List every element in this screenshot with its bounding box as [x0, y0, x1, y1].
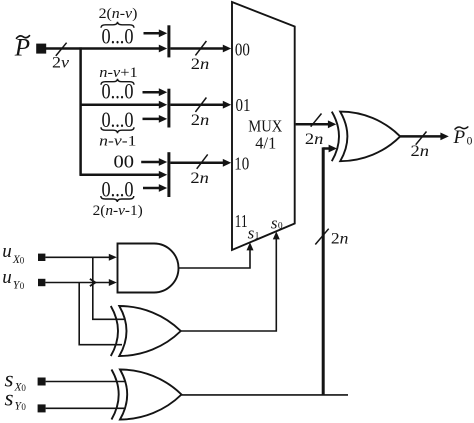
xor gate U4 (s signals) — [112, 370, 182, 420]
svg-text:P: P — [453, 127, 466, 148]
svg-text:2n: 2n — [305, 131, 324, 148]
svg-text:0: 0 — [21, 383, 26, 393]
xor gate U3 (u signals) — [111, 306, 181, 356]
svg-text:0: 0 — [21, 402, 26, 412]
MUX label MUX — [248, 117, 282, 136]
svg-text:1: 1 — [255, 232, 260, 242]
terminal square uY0 — [38, 279, 45, 286]
underbrace n-v-1 — [101, 127, 134, 133]
svg-text:u: u — [2, 267, 12, 288]
wire constant arrow lower (branch 01) — [143, 115, 168, 123]
bus slash 2n output — [411, 132, 430, 161]
terminal square sY0 — [38, 404, 46, 412]
svg-text:0...0: 0...0 — [102, 79, 134, 104]
concatenation bar branch 00 — [167, 25, 170, 57]
svg-text:s: s — [248, 224, 255, 243]
svg-text:0: 0 — [20, 281, 25, 291]
terminal square uX0 — [38, 254, 45, 261]
MUX label 4/1 — [255, 133, 276, 152]
svg-text:s: s — [5, 385, 14, 410]
svg-text:00: 00 — [114, 151, 135, 171]
svg-text:2n: 2n — [411, 143, 430, 160]
terminal square sX0 — [38, 378, 46, 386]
label 2(n-v-1) — [93, 203, 143, 219]
wire 2n bus vertical — [323, 145, 337, 396]
constant 0...0 (branch 10) — [102, 176, 134, 201]
overbrace 2(n-v) — [101, 22, 134, 28]
svg-text:0...0: 0...0 — [102, 24, 134, 49]
wire constant arrow upper (branch 01) — [143, 88, 168, 96]
svg-text:2n: 2n — [331, 230, 349, 247]
wire branch 01 from vertical — [80, 101, 167, 109]
svg-text:2v: 2v — [52, 55, 70, 72]
wire XOR U3 output to s0 — [181, 231, 280, 331]
wire constant arrow 00 (branch 10) — [141, 158, 167, 166]
constant 0...0 lower (branch 01) — [102, 107, 134, 132]
terminal square P~ — [36, 44, 46, 54]
node uY0 label — [2, 267, 25, 292]
wire uX0 tap to XOR U3 — [93, 257, 124, 319]
xor gate U1 (output stage) — [332, 112, 400, 162]
node P~0 output label — [453, 127, 473, 148]
bus slash 2n branch 00 — [191, 41, 210, 73]
MUX label 01 — [236, 95, 251, 115]
wire P~ main (branch 00) — [46, 45, 167, 53]
MUX label 00 — [235, 39, 250, 59]
wire constant arrow lower (branch 10) — [143, 184, 167, 192]
svg-text:0: 0 — [20, 255, 25, 265]
bus slash 2n branch 10 — [190, 154, 209, 187]
MUX label 10 — [234, 153, 249, 173]
wire uX0 to AND — [45, 254, 116, 261]
bus slash 2n branch 01 — [191, 98, 210, 130]
svg-text:2n: 2n — [190, 170, 209, 187]
svg-text:0: 0 — [278, 222, 283, 232]
multiplexer MUX 4/1 body — [232, 2, 295, 250]
wire branch 01 to MUX — [170, 101, 231, 109]
node P~ input label — [14, 35, 30, 62]
wire AND output to s1 — [179, 242, 254, 268]
underbrace 2(n-v-1) — [101, 196, 134, 202]
overbrace n-v+1 — [101, 79, 134, 85]
vertical branch wire — [79, 47, 82, 176]
wire junction hop uX0 over uY0 — [90, 279, 96, 286]
svg-text:00: 00 — [235, 39, 250, 59]
svg-text:s: s — [271, 214, 278, 233]
node sY0 label — [5, 385, 27, 412]
and gate U2 — [118, 244, 179, 293]
wire branch 10 from vertical — [80, 171, 167, 179]
wire branch 10 to MUX — [170, 159, 231, 167]
concatenation bar branch 10 — [167, 152, 170, 197]
node sX0 label — [5, 366, 27, 393]
wire sX0 to XOR U4 — [46, 381, 126, 383]
MUX label 11 — [235, 211, 248, 231]
label n-v-1 — [99, 133, 136, 149]
constant 0...0 upper (branch 01) — [102, 79, 134, 104]
svg-text:2(n-v): 2(n-v) — [99, 6, 138, 22]
constant 00 (branch 10) — [114, 151, 135, 171]
svg-text:0: 0 — [467, 135, 473, 147]
svg-text:01: 01 — [236, 95, 251, 115]
node uX0 label — [2, 241, 25, 266]
wire branch 00 to MUX — [170, 45, 231, 53]
wire XOR U4 output to 2n bus — [182, 394, 349, 396]
label n-v+1 — [99, 65, 138, 81]
svg-text:10: 10 — [234, 153, 249, 173]
bus slash 2n MUX output — [305, 114, 324, 149]
wire uY0 to AND — [45, 279, 116, 286]
MUX select label s1 — [248, 224, 260, 243]
wire constant arrow (branch 00) — [144, 29, 168, 37]
svg-text:0...0: 0...0 — [102, 176, 134, 201]
svg-text:0...0: 0...0 — [102, 107, 134, 132]
wire xor U1 output P~0 — [400, 133, 449, 141]
concatenation bar branch 01 — [167, 89, 170, 128]
svg-text:4/1: 4/1 — [255, 133, 276, 152]
bus slash 2n vertical — [315, 229, 348, 248]
svg-text:u: u — [2, 241, 12, 262]
wire uY0 tap to XOR U3 — [79, 283, 122, 345]
label 2(n-v) — [99, 6, 138, 22]
wire MUX output bus — [296, 120, 337, 128]
svg-text:11: 11 — [235, 211, 248, 231]
bus width slash 2v — [52, 43, 70, 72]
svg-text:2n: 2n — [191, 56, 210, 73]
svg-text:2(n-v-1): 2(n-v-1) — [93, 203, 143, 219]
MUX select label s0 — [271, 214, 283, 233]
constant 0...0 (branch 00) — [102, 24, 134, 49]
svg-text:2n: 2n — [191, 112, 210, 129]
svg-text:n-v-1: n-v-1 — [99, 133, 136, 149]
wire sY0 to XOR U4 — [46, 407, 126, 409]
